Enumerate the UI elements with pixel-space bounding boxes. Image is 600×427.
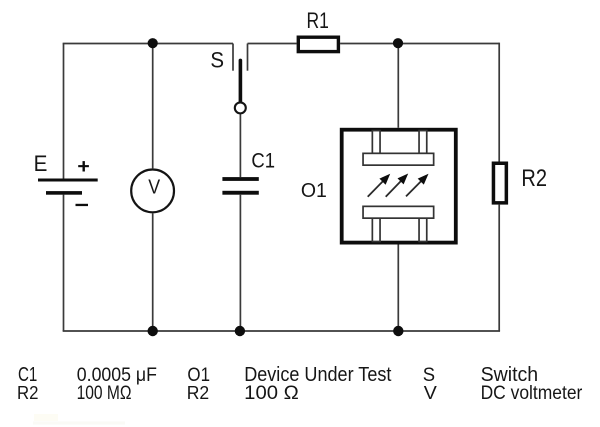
svg-text:100 MΩ: 100 MΩ bbox=[77, 383, 132, 404]
svg-text:DC voltmeter: DC voltmeter bbox=[481, 383, 583, 404]
svg-text:100 Ω: 100 Ω bbox=[244, 383, 299, 404]
svg-text:R2: R2 bbox=[17, 382, 38, 403]
svg-text:E: E bbox=[34, 151, 48, 176]
svg-text:V: V bbox=[424, 382, 438, 403]
svg-text:S: S bbox=[210, 47, 224, 72]
svg-text:R1: R1 bbox=[307, 8, 329, 33]
svg-text:C1: C1 bbox=[251, 149, 275, 173]
svg-text:O1: O1 bbox=[301, 180, 327, 202]
svg-text:R2: R2 bbox=[521, 165, 547, 192]
svg-text:V: V bbox=[148, 175, 160, 198]
svg-text:R2: R2 bbox=[187, 382, 209, 403]
